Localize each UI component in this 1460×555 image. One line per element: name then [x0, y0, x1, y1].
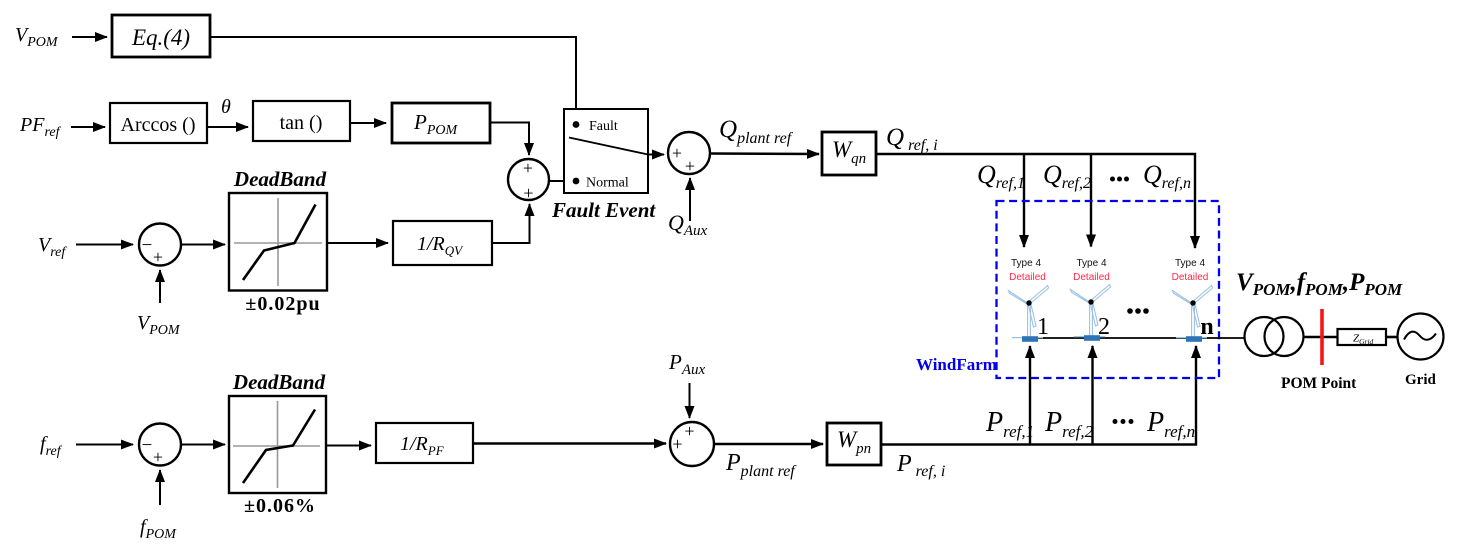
block 1/R_QV — [393, 221, 492, 265]
svg-text:POM Point: POM Point — [1281, 375, 1357, 392]
svg-text:2: 2 — [1098, 314, 1110, 340]
svg-text:Detailed: Detailed — [1172, 272, 1209, 283]
wire S3 to deadband V — [182, 244, 226, 246]
svg-text:Qref,1: Qref,1 — [977, 160, 1025, 192]
block W_qn — [822, 132, 876, 175]
svg-text:Fault Event: Fault Event — [551, 198, 656, 222]
dots between P labels — [1113, 419, 1134, 424]
svg-text:1: 1 — [1037, 314, 1049, 340]
wind turbine n — [1173, 286, 1213, 342]
wire V_POM into S3 — [159, 270, 161, 303]
wire S2 to W_qn — [710, 152, 819, 155]
wire switch to summer S2 — [648, 154, 664, 156]
svg-text:VPOM: VPOM — [137, 312, 181, 338]
wire impedance to grid — [1386, 336, 1398, 339]
svg-text:Pplant ref: Pplant ref — [725, 450, 797, 480]
svg-text:Pref,1: Pref,1 — [985, 407, 1034, 441]
wire P_POM to summer S1 — [490, 123, 529, 156]
wire S1 to Normal input — [549, 180, 573, 182]
svg-text:PFref: PFref — [19, 114, 62, 140]
svg-text:Grid: Grid — [1405, 372, 1436, 388]
block tan() — [253, 101, 350, 141]
svg-text:Type 4: Type 4 — [1175, 258, 1205, 269]
svg-text:Detailed: Detailed — [1009, 272, 1046, 283]
svg-text:Detailed: Detailed — [1073, 272, 1110, 283]
svg-text:Normal: Normal — [586, 176, 629, 191]
svg-text:+: + — [153, 247, 163, 267]
wire Arccos to tan — [207, 126, 248, 128]
wire Q riser 2 — [1090, 154, 1092, 247]
dots between turbines — [1127, 308, 1149, 314]
wire PF_ref to Arccos — [71, 126, 105, 128]
wind farm dashed boundary — [997, 201, 1220, 378]
svg-text:+: + — [684, 421, 694, 441]
svg-text:fref: fref — [40, 433, 63, 459]
svg-text:DeadBand: DeadBand — [232, 370, 326, 394]
svg-text:Fault: Fault — [589, 119, 618, 134]
svg-text:Qplant ref: Qplant ref — [719, 116, 794, 147]
svg-text:+: + — [672, 434, 682, 454]
svg-text:Qref,2: Qref,2 — [1043, 160, 1091, 192]
summing junction S4 — [139, 424, 181, 468]
svg-text:θ: θ — [221, 96, 231, 118]
summing junction S3 — [139, 224, 181, 268]
svg-text:+: + — [523, 183, 533, 203]
wire P distribution bus — [881, 346, 1196, 445]
svg-text:+: + — [685, 156, 695, 176]
svg-text:Arccos (): Arccos () — [121, 114, 196, 136]
wire 1/R_QV to summer S1 — [492, 204, 530, 243]
impedance block Z_grid — [1338, 329, 1387, 346]
wire S4 to deadband f — [182, 444, 226, 446]
block P_POM — [392, 103, 490, 143]
svg-text:Type 4: Type 4 — [1011, 258, 1041, 269]
wind turbine 2 — [1071, 285, 1111, 341]
svg-text:P ref, i: P ref, i — [896, 451, 945, 480]
svg-text:+: + — [523, 158, 533, 178]
svg-text:+: + — [153, 447, 163, 467]
wire P riser 1 — [1029, 346, 1031, 445]
grid AC source — [1398, 314, 1444, 360]
svg-text:QAux: QAux — [668, 210, 708, 239]
wire P riser 2 — [1091, 346, 1093, 445]
summing junction S5 — [670, 421, 714, 466]
wire S5 to W_pn — [714, 443, 823, 445]
svg-text:tan (): tan () — [280, 112, 323, 134]
svg-text:Eq.(4): Eq.(4) — [131, 25, 190, 50]
summing junction S1 — [508, 158, 549, 203]
dots between Q labels — [1110, 177, 1129, 182]
block 1/R_PF — [376, 423, 473, 463]
wire Q riser 1 — [1023, 154, 1025, 247]
svg-text:Qref,n: Qref,n — [1143, 160, 1191, 192]
svg-text:PAux: PAux — [668, 350, 705, 378]
svg-text:WindFarm: WindFarm — [916, 355, 997, 374]
svg-text:±0.06%: ±0.06% — [244, 495, 316, 517]
svg-text:Pref,2: Pref,2 — [1044, 407, 1094, 441]
wire V_POM to Eq.(4) — [72, 36, 107, 38]
wire Q_Aux into S2 — [689, 178, 691, 221]
svg-text:Vref: Vref — [38, 234, 67, 260]
POM point red bar — [1320, 309, 1324, 365]
svg-text:fPOM: fPOM — [140, 516, 177, 542]
wire 1/R_PF to summer S5 — [473, 442, 666, 444]
wire deadband V to 1/R_QV — [327, 242, 388, 244]
wire Eq.(4) to fault switch — [210, 37, 576, 121]
svg-text:−: − — [142, 435, 153, 456]
svg-text:±0.02pu: ±0.02pu — [245, 293, 320, 315]
block Arccos() — [110, 103, 207, 143]
block W_pn — [827, 423, 881, 465]
wire V_ref to summer S3 — [76, 244, 133, 246]
svg-text:Type 4: Type 4 — [1076, 258, 1106, 269]
block deadband f — [229, 396, 326, 493]
wire tan to P_POM — [350, 122, 386, 124]
svg-text:−: − — [142, 235, 153, 256]
wind turbine 1 — [1009, 286, 1049, 342]
wire transformer to impedance — [1304, 336, 1339, 339]
wire f_ref to summer S4 — [76, 444, 133, 446]
switch box Fault Event — [564, 109, 648, 193]
svg-text:VPOM,fPOM,PPOM: VPOM,fPOM,PPOM — [1236, 269, 1403, 299]
svg-text:Q ref, i: Q ref, i — [886, 124, 938, 154]
block deadband V — [229, 193, 327, 291]
transformer — [1245, 317, 1304, 356]
wire f_POM into S4 — [159, 470, 161, 505]
svg-text:VPOM: VPOM — [15, 24, 59, 50]
svg-text:+: + — [672, 143, 682, 163]
svg-text:n: n — [1200, 314, 1213, 340]
svg-text:Pref,n: Pref,n — [1146, 407, 1195, 441]
summing junction S2 — [668, 132, 710, 176]
block Eq.(4) — [112, 15, 210, 57]
wire Q distribution bus — [876, 154, 1195, 248]
wire deadband f to 1/R_PF — [326, 445, 371, 447]
wire P_Aux into S5 — [689, 383, 691, 418]
turbine bus wire — [1024, 337, 1245, 339]
svg-text:DeadBand: DeadBand — [233, 167, 327, 191]
